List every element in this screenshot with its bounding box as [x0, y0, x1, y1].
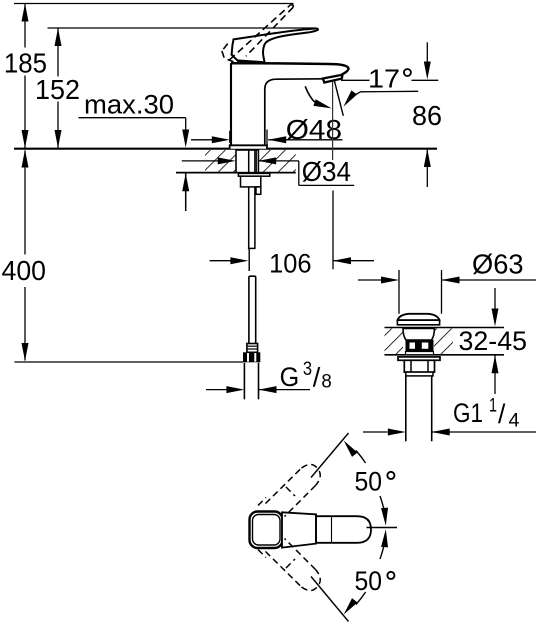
dimension Ø48 — [191, 114, 343, 145]
drain cap dome — [398, 314, 440, 320]
svg-text:/: / — [313, 362, 321, 392]
spout underside — [275, 78, 323, 80]
svg-text:8: 8 — [321, 372, 331, 393]
svg-text:1: 1 — [489, 396, 497, 417]
Ø63 dimension — [358, 279, 381, 281]
shank below counter — [236, 150, 258, 173]
small tab — [256, 187, 261, 194]
lower hose — [249, 276, 256, 343]
svg-text:50: 50 — [355, 566, 383, 596]
G3/8 pipe — [243, 363, 245, 400]
aerator — [323, 75, 343, 83]
svg-text:400: 400 — [2, 255, 47, 286]
label 17deg — [341, 66, 439, 109]
max.30 lower arrow — [182, 173, 189, 191]
centerline — [367, 527, 398, 529]
dimension 185 — [4, 4, 47, 149]
dimension Ø34 — [182, 156, 354, 187]
svg-text:50: 50 — [355, 467, 383, 497]
upper 50 arc — [356, 451, 366, 464]
dimension 152 — [35, 28, 80, 148]
svg-text:/: / — [498, 399, 506, 429]
flow curved arrow — [305, 86, 315, 103]
plan grip — [316, 516, 371, 543]
dimension 106 — [210, 191, 375, 279]
washer — [406, 372, 433, 376]
50 deg diagonals — [311, 433, 349, 478]
svg-text:86: 86 — [412, 100, 442, 131]
body left edge — [230, 63, 232, 145]
dimension G 3/8 — [206, 359, 332, 393]
mounting block — [241, 176, 261, 187]
svg-text:G: G — [280, 362, 300, 392]
base flange — [230, 145, 267, 148]
solid lever — [232, 28, 318, 62]
drain upper body — [403, 328, 434, 340]
extension line 152 — [48, 27, 317, 29]
extension line 185 top — [14, 3, 294, 5]
plan lever knob outer — [250, 512, 283, 549]
body top edge / spout top — [231, 63, 349, 74]
connection nut — [243, 352, 260, 362]
locknut — [404, 360, 434, 372]
svg-text:4: 4 — [509, 411, 520, 432]
thin rod segment — [248, 249, 250, 271]
hose lines inside shank — [248, 151, 250, 249]
below-deck plate — [238, 173, 269, 176]
label max.30 — [79, 90, 190, 211]
tailpipe — [405, 376, 407, 441]
dimension 400 — [2, 150, 47, 362]
inner corner arc — [265, 79, 276, 145]
dashed rotated grip down — [258, 539, 320, 591]
plan lever knob inner — [253, 515, 281, 546]
lever bottom thick edge — [237, 61, 263, 63]
dimension 32-45 — [459, 288, 528, 394]
bottom reference line — [15, 361, 244, 363]
Ø63 extension lines — [398, 270, 400, 314]
counter underside line — [176, 172, 296, 174]
lower 50 arc — [356, 592, 366, 605]
svg-text:17: 17 — [368, 66, 400, 94]
outlet vertical line — [332, 82, 334, 161]
drain cage — [406, 340, 434, 352]
svg-text:Ø63: Ø63 — [472, 249, 524, 280]
counter hatching — [205, 150, 236, 172]
svg-text:152: 152 — [35, 74, 80, 105]
svg-text:106: 106 — [269, 249, 311, 279]
right counter lines — [385, 327, 505, 329]
hose end fitting — [247, 344, 258, 353]
svg-text:32-45: 32-45 — [459, 326, 528, 356]
svg-text:max.30: max.30 — [84, 90, 174, 120]
stream 17 deg line — [334, 81, 343, 116]
svg-text:Ø48: Ø48 — [286, 114, 342, 145]
dimension G1 1/4 — [363, 396, 536, 436]
counter top line — [14, 148, 437, 150]
plan handle mid — [282, 512, 316, 547]
svg-text:Ø34: Ø34 — [302, 156, 351, 187]
dashed rotated grip up — [258, 464, 320, 516]
right counter hatching — [385, 329, 404, 355]
dimension 86 — [412, 42, 442, 187]
dashed raised lever — [222, 5, 293, 62]
svg-text:3: 3 — [303, 359, 312, 380]
flange plate — [398, 357, 440, 360]
plan grip divider — [315, 514, 317, 543]
svg-text:G1: G1 — [453, 398, 483, 428]
